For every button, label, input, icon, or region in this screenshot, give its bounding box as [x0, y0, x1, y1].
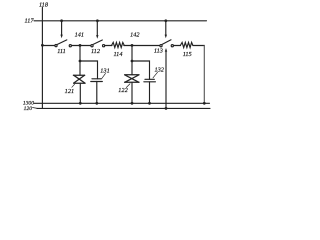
wire below capacitor 132: [149, 82, 151, 104]
resistor 115: [180, 42, 193, 47]
svg-text:111: 111: [57, 48, 66, 55]
junction dot varistor 122 on conductor 1300: [131, 102, 134, 105]
junction dot at branch of 141: [79, 60, 82, 63]
wire switch row segment 1: [42, 45, 54, 47]
svg-text:132: 132: [154, 66, 164, 73]
arrowhead pointing down at switch 112: [96, 35, 98, 39]
svg-text:120: 120: [24, 106, 33, 112]
wire branch to capacitor 132: [132, 61, 150, 79]
wire actuator of switch 112: [96, 21, 98, 36]
varistor 121 hourglass: [73, 75, 85, 83]
wire node 141 branch down: [79, 46, 81, 76]
wire actuator of switch 111: [61, 21, 63, 36]
switch 111 left contact: [55, 45, 57, 47]
svg-text:131: 131: [100, 67, 109, 74]
label 141: [75, 32, 84, 39]
svg-text:121: 121: [65, 88, 74, 95]
leader line for label 132: [153, 72, 158, 78]
varistor 122 hourglass: [125, 75, 139, 83]
junction dot on rail for switch 111 actuator: [60, 19, 63, 22]
junction dot on rail for switch 113 upper actuator: [164, 19, 167, 22]
label 142: [130, 32, 140, 39]
junction dot at left of switch row: [41, 44, 44, 47]
leader line for label 121: [72, 84, 75, 87]
switch 113 left contact: [160, 45, 162, 47]
svg-text:118: 118: [39, 2, 49, 9]
svg-text:115: 115: [183, 51, 192, 58]
label 118: [39, 2, 49, 9]
node 117 top rail: [34, 20, 207, 22]
wire switch row segment 5: [132, 45, 160, 47]
junction dot on conductor 120: [165, 107, 168, 110]
svg-text:112: 112: [91, 48, 101, 55]
svg-text:122: 122: [118, 87, 128, 94]
node 142 junction dot: [131, 44, 134, 47]
junction dot varistor 121 on conductor 1300: [79, 102, 82, 105]
leader line for label 122: [126, 84, 130, 88]
label 117: [25, 18, 35, 25]
junction dot capacitor 132 on conductor 1300: [148, 102, 151, 105]
wire below capacitor 131: [96, 82, 98, 104]
resistor 114: [112, 42, 125, 47]
label 111: [57, 48, 66, 55]
label 1300: [23, 101, 34, 107]
wire node 142 branch down: [131, 46, 133, 75]
label 113: [154, 48, 163, 55]
wire switch row segment 4: [124, 45, 132, 47]
wire switch row segment 2: [71, 45, 91, 47]
junction dot capacitor 131 on conductor 1300: [95, 102, 98, 105]
switch 112 blade: [93, 40, 102, 45]
leader dash for label 120: [33, 107, 38, 110]
label 132: [154, 66, 164, 73]
switch 111 blade: [57, 40, 67, 45]
junction dot at branch of 142: [131, 60, 134, 63]
wire right vertical down: [203, 46, 205, 104]
switch 112 left contact: [91, 45, 93, 47]
conductor 1300 lower rail upper line: [34, 102, 210, 104]
wire below varistor 121: [79, 83, 81, 103]
label 120: [24, 106, 33, 112]
svg-text:141: 141: [75, 32, 84, 39]
conductor 120 lower rail bottom line: [37, 107, 210, 109]
wire branch to capacitor 131: [80, 61, 98, 79]
wire from resistor 115 to right corner: [193, 45, 204, 47]
label 122: [118, 87, 128, 94]
wire below varistor 122: [131, 82, 133, 103]
svg-text:142: 142: [130, 32, 140, 39]
switch 111 right contact: [69, 45, 71, 47]
capacitor 131: [91, 79, 103, 82]
svg-text:113: 113: [154, 48, 163, 55]
svg-text:114: 114: [114, 51, 123, 58]
wire lower actuator of switch 113 down to conductor 120: [165, 51, 167, 108]
arrowhead pointing down at switch 111: [60, 35, 62, 39]
switch 113 blade: [162, 40, 171, 45]
wire switch row segment 3: [105, 45, 112, 47]
switch 113 right contact: [171, 45, 173, 47]
label 131: [100, 67, 109, 74]
node 141 junction dot: [79, 44, 82, 47]
svg-text:117: 117: [25, 18, 35, 25]
wire switch row segment 6: [173, 45, 180, 47]
arrowhead pointing down at switch 113: [165, 35, 167, 39]
wire left branch down to conductor 120: [41, 46, 43, 109]
switch 112 right contact: [103, 45, 105, 47]
leader line for label 131: [102, 73, 106, 78]
wire upper actuator of switch 113: [165, 21, 167, 36]
capacitor 132: [144, 79, 156, 82]
label 115: [183, 51, 192, 58]
label 121: [65, 88, 74, 95]
arrowhead pointing up at switch 113 from below: [165, 48, 167, 52]
label 112: [91, 48, 101, 55]
junction dot right on conductor 1300: [203, 102, 206, 105]
junction dot on rail for switch 112 actuator: [96, 19, 99, 22]
label 114: [114, 51, 123, 58]
wire 118 stub vertical: [41, 8, 43, 46]
